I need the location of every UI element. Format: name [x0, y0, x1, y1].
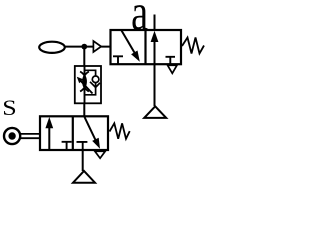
pilot wire from junction to valve a	[84, 46, 110, 48]
compressed air source of valve S	[73, 171, 95, 183]
valve a left box flow arrow (2 to 3)	[122, 31, 140, 62]
valve S return spring	[110, 123, 130, 139]
one-way flow control valve body	[75, 66, 101, 103]
pneumatic pilot actuator triangle of valve a	[93, 41, 101, 52]
valve S body (3/2-way roller valve)	[40, 116, 108, 150]
check valve bypass line	[85, 70, 96, 95]
supply line of valve a	[154, 64, 156, 106]
valve a return spring	[182, 38, 204, 54]
valve S left box flow arrow (1 to 2)	[45, 117, 53, 150]
supply line of valve S	[82, 150, 84, 171]
throttle arcs	[80, 72, 89, 92]
roller actuator fork	[20, 134, 40, 138]
valve a right box blocked port T	[166, 57, 176, 64]
flow control main line	[84, 66, 86, 103]
wire top port of valve a	[154, 15, 156, 31]
valve S right box blocked port T	[77, 142, 88, 150]
throttle adjustment arrow	[77, 77, 93, 94]
roller wheel	[4, 128, 20, 144]
svg-text:S: S	[2, 97, 16, 121]
roller axle	[8, 132, 15, 139]
wire flow control valve to valve S	[83, 103, 85, 116]
valve S left box blocked port T	[62, 142, 72, 150]
check valve ball	[92, 76, 99, 83]
junction node	[81, 44, 87, 50]
wire junction down to flow control valve	[83, 47, 85, 66]
valve S exhaust triangle (port 3)	[95, 151, 105, 158]
wire from oval to junction	[65, 46, 85, 48]
valve a right box flow arrow (1 to 2)	[151, 31, 159, 64]
check valve seat	[90, 82, 100, 88]
valve a body (3/2-way pneumatic valve)	[111, 30, 182, 64]
valve S right box flow arrow (2 to 3)	[85, 117, 101, 149]
valve a left box blocked port T	[113, 56, 123, 64]
oval marker	[39, 42, 65, 53]
compressed air source of valve a	[144, 106, 166, 118]
valve a exhaust triangle (port 3)	[168, 65, 177, 73]
